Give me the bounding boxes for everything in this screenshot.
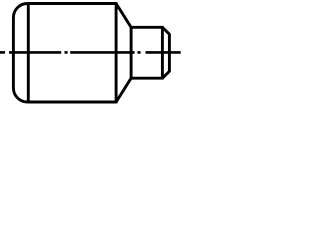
- centerline dash-dot: [0, 51, 5, 54]
- left tangent line of rounded edge: [27, 4, 30, 103]
- top edge of large body: [27, 2, 117, 5]
- bottom-left corner arc: [13, 88, 27, 102]
- lower cone diagonal: [116, 78, 131, 102]
- bottom edge of large body: [27, 101, 117, 104]
- boss bottom edge: [131, 77, 164, 80]
- boss left edge (cone/boss intersection): [130, 26, 133, 79]
- boss right edge: [168, 34, 171, 73]
- boss bottom-right chamfer: [163, 71, 170, 78]
- right edge of large body: [115, 4, 118, 103]
- upper cone diagonal: [116, 4, 131, 28]
- boss chamfer tangent line: [161, 27, 164, 78]
- boss top edge: [131, 26, 164, 29]
- boss top-right chamfer: [163, 28, 170, 35]
- top-left corner arc: [13, 4, 27, 18]
- left edge of large body: [12, 17, 15, 89]
